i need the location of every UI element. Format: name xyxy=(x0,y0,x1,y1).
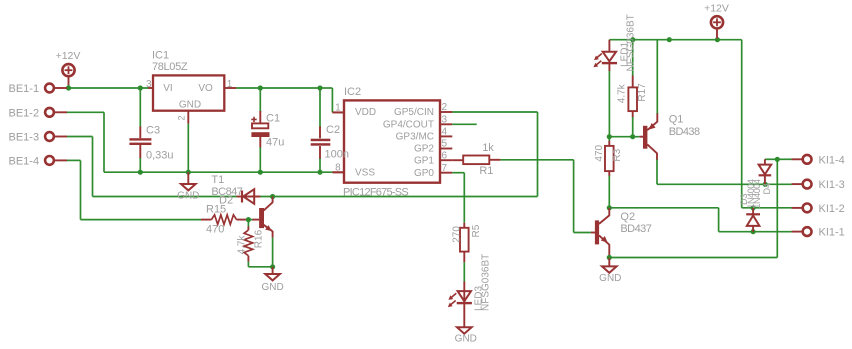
svg-text:1: 1 xyxy=(227,79,233,90)
svg-text:Q1: Q1 xyxy=(669,114,684,126)
svg-text:5: 5 xyxy=(442,139,448,150)
svg-text:GP3/MC: GP3/MC xyxy=(396,132,434,143)
svg-text:R17: R17 xyxy=(637,83,648,102)
svg-text:GP0: GP0 xyxy=(414,168,434,179)
svg-text:GND: GND xyxy=(599,273,621,284)
svg-text:NFSG036BT: NFSG036BT xyxy=(625,14,636,71)
svg-text:D4: D4 xyxy=(762,183,772,195)
svg-text:NFSG036BT: NFSG036BT xyxy=(481,254,492,311)
svg-text:470: 470 xyxy=(594,144,605,161)
svg-text:GND: GND xyxy=(177,190,199,201)
svg-text:3: 3 xyxy=(146,79,152,90)
svg-text:2: 2 xyxy=(176,115,186,120)
svg-text:C2: C2 xyxy=(326,124,340,136)
svg-text:BD437: BD437 xyxy=(620,223,651,235)
svg-text:+12V: +12V xyxy=(704,2,729,14)
svg-text:270: 270 xyxy=(452,226,463,243)
svg-text:BD438: BD438 xyxy=(669,126,700,138)
svg-text:GND: GND xyxy=(455,334,477,345)
svg-text:VO: VO xyxy=(198,83,213,94)
svg-text:KI1-1: KI1-1 xyxy=(819,227,845,239)
svg-text:+12V: +12V xyxy=(56,50,81,62)
svg-text:3: 3 xyxy=(442,115,448,126)
svg-text:BE1-3: BE1-3 xyxy=(9,132,40,144)
svg-text:470: 470 xyxy=(206,224,224,236)
svg-text:GP1: GP1 xyxy=(414,155,434,166)
svg-text:0,33u: 0,33u xyxy=(146,150,174,162)
svg-text:C3: C3 xyxy=(146,125,160,137)
svg-text:VSS: VSS xyxy=(355,168,375,179)
svg-text:VDD: VDD xyxy=(355,107,376,118)
svg-text:2: 2 xyxy=(442,102,448,113)
svg-text:R3: R3 xyxy=(612,148,623,161)
svg-text:BE1-2: BE1-2 xyxy=(9,107,40,119)
svg-text:4.7k: 4.7k xyxy=(617,83,628,103)
svg-text:4.7k: 4.7k xyxy=(236,234,247,254)
svg-text:7: 7 xyxy=(442,163,448,174)
svg-text:1k: 1k xyxy=(482,142,494,154)
svg-text:PIC12F675-SS: PIC12F675-SS xyxy=(343,186,408,198)
svg-text:78L05Z: 78L05Z xyxy=(152,61,188,73)
svg-text:R5: R5 xyxy=(471,224,482,237)
svg-text:GP4/COUT: GP4/COUT xyxy=(383,120,434,131)
svg-text:T1: T1 xyxy=(211,174,224,186)
svg-text:6: 6 xyxy=(442,150,448,161)
svg-text:GP5/CIN: GP5/CIN xyxy=(394,107,434,118)
svg-text:IC2: IC2 xyxy=(344,86,361,98)
svg-text:GND: GND xyxy=(261,282,283,293)
svg-text:100n: 100n xyxy=(325,149,349,161)
svg-text:BE1-4: BE1-4 xyxy=(9,156,40,168)
svg-text:R1: R1 xyxy=(479,165,493,177)
svg-text:1N4004: 1N4004 xyxy=(752,179,762,209)
svg-text:VI: VI xyxy=(163,83,172,94)
svg-text:8: 8 xyxy=(335,163,341,174)
svg-text:R16: R16 xyxy=(254,229,265,248)
svg-text:R15: R15 xyxy=(206,203,226,215)
svg-text:4: 4 xyxy=(442,127,448,138)
svg-text:1: 1 xyxy=(335,102,341,113)
svg-text:GND: GND xyxy=(179,99,201,110)
svg-text:KI1-3: KI1-3 xyxy=(819,179,845,191)
svg-text:KI1-2: KI1-2 xyxy=(819,203,845,215)
svg-text:IC1: IC1 xyxy=(152,50,169,62)
svg-text:47u: 47u xyxy=(266,137,284,149)
svg-text:Q2: Q2 xyxy=(620,211,635,223)
svg-text:KI1-4: KI1-4 xyxy=(819,154,845,166)
svg-text:GP2: GP2 xyxy=(414,144,434,155)
svg-text:BE1-1: BE1-1 xyxy=(9,83,40,95)
